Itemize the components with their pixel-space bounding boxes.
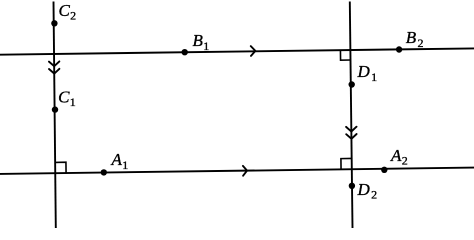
svg-text:C2: C2 — [59, 1, 77, 23]
double chevron mark on line D — [346, 127, 356, 132]
point B1 — [182, 49, 188, 55]
arrow mark on line B — [251, 46, 256, 56]
point D1 — [349, 81, 355, 87]
point A1 — [101, 169, 107, 175]
svg-text:C1: C1 — [58, 87, 76, 109]
point C2 — [51, 20, 57, 26]
svg-text:A2: A2 — [390, 146, 408, 168]
svg-text:A1: A1 — [111, 150, 129, 172]
svg-text:B2: B2 — [406, 28, 424, 50]
svg-text:B1: B1 — [193, 31, 210, 53]
line D (right vertical) — [350, 2, 353, 229]
point B2 — [396, 46, 402, 52]
point C1 — [52, 106, 58, 112]
svg-text:D2: D2 — [357, 180, 378, 202]
point D2 — [349, 183, 355, 189]
right angle mark at A2D2 intersection — [341, 158, 352, 169]
double chevron mark on line C — [49, 61, 59, 66]
line C (left vertical) — [54, 2, 56, 229]
line A (bottom transversal) — [0, 168, 474, 174]
point A2 — [381, 167, 387, 173]
right angle mark at A1C1 intersection — [55, 162, 66, 173]
svg-text:D1: D1 — [357, 62, 378, 84]
line B (top transversal) — [0, 48, 474, 54]
arrow mark on line A — [243, 166, 247, 176]
right angle mark at B2D1 intersection — [340, 50, 350, 60]
